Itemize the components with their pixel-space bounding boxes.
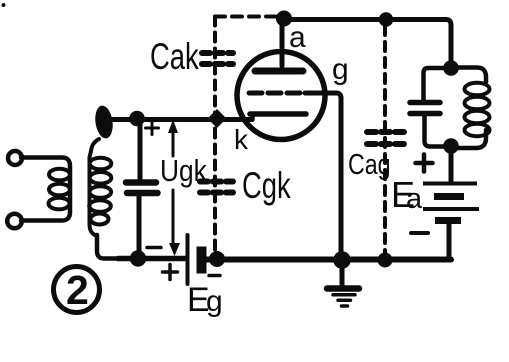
battery Ea long plate 2 [423,207,479,211]
battery Eg short plate [197,247,207,274]
wire bottom left segment to Eg battery [118,256,186,262]
grid of tube (dashed) [249,91,307,96]
cathode hook lead [250,114,255,120]
plus sign Ea [416,155,433,172]
inductor tank loop 1 [465,83,490,95]
inductor secondary loop 3 [90,186,112,198]
inductor primary loop 2 [49,184,70,196]
svg-text:Cak: Cak [150,36,199,77]
terminal input 1 [8,151,22,165]
node tank top [443,60,459,76]
speck top left [2,3,6,7]
node tank bottom [443,138,459,154]
inductor primary loop 3 [49,198,70,210]
wire tank top left branch [424,68,450,99]
node k junction (diamond) [208,109,227,128]
minus sign Ea [411,231,428,235]
capacitor Cag (dashed plates) [367,132,404,144]
minus sign Ugk bottom [147,246,161,250]
plus sign Ugk top [146,122,159,135]
plus sign Eg [163,265,178,280]
wire dashed vertical Cag line x=386 [383,26,387,253]
svg-text:Cag: Cag [348,147,391,180]
wire tank coil bottom lead [453,130,486,148]
inductor secondary loop 2 [90,172,112,184]
arrow Ugk up [172,132,175,156]
wire main horizontal grid-row y=119 [106,117,252,122]
node ground junction [333,251,351,269]
tube V1 envelope [237,52,325,140]
capacitor C1 plates [126,179,156,186]
capacitor C1 bottom lead [137,196,142,258]
node junction left (capacitor branch) [129,111,145,127]
inductor tank loop 2 [465,97,490,109]
inductor primary loop 1 [49,169,70,181]
capacitor tank plate bottom [410,111,440,117]
terminal input 2 [7,214,22,229]
capacitor C1 top lead [138,118,143,180]
terminal blob input top [93,104,114,139]
node bottom left junction [130,250,146,266]
svg-text:g: g [332,53,349,86]
capacitor tank plate top [410,100,440,106]
node Cag bottom junction [378,253,393,268]
transformer T1 secondary spine [90,139,100,236]
svg-text:a: a [289,21,306,54]
wire top dashed segment from Cak line corner to anode node [215,15,280,19]
wire secondary bottom lead [97,235,120,259]
wire top horizontal anode to right corner down to tank [284,20,451,63]
wire grid lead exiting tube [305,93,341,255]
cathode of tube [250,111,306,117]
inductor tank loop 4 [465,124,490,136]
node anode top junction [276,11,292,27]
wire battery Ea to bottom [447,223,452,257]
inductor secondary loop 4 [89,200,111,212]
transformer T1 primary winding leads [21,158,70,221]
capacitor Cgk (dashed plates) [200,182,233,193]
minus sign Eg [209,274,220,278]
inductor secondary loop 1 [90,158,112,170]
inductor secondary loop 5 [91,214,109,225]
wire tank coil top lead [451,68,486,83]
battery Eg long plate [186,235,190,284]
arrow Ugk down [172,190,175,244]
capacitor Cak (dashed plates) [202,53,233,64]
ground symbol [327,260,359,306]
battery Ea long plate 1 [423,182,477,186]
inductor tank loop 3 [465,111,490,123]
battery Ea short plate 1 [434,193,464,200]
svg-text:2: 2 [66,267,89,313]
wire dashed vertical Cak-Cgk line x=215 [213,17,217,254]
wire tank to battery Ea [449,146,454,181]
svg-text:Cgk: Cgk [242,165,291,206]
svg-text:k: k [234,124,249,155]
battery Ea short plate 2 [435,217,461,224]
node Eg junction [209,251,225,267]
anode plate of tube [255,68,303,75]
wire bottom main segment [206,257,451,263]
node top Cag junction [379,12,393,26]
wire tank bottom left branch [425,116,450,147]
svg-text:g: g [206,285,223,318]
svg-text:a: a [406,183,423,215]
wire anode lead [280,19,285,66]
figure number circle 2 [54,267,100,313]
